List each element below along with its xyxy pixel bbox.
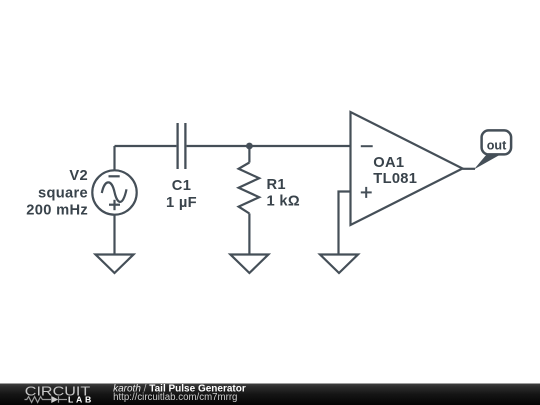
wire main net right segment — [187, 145, 351, 147]
flag out pointer — [474, 155, 500, 170]
wire V2 bottom — [113, 215, 115, 255]
svg-text:1 kΩ: 1 kΩ — [267, 194, 300, 210]
svg-text:http://circuitlab.com/cm7mrrg: http://circuitlab.com/cm7mrrg — [113, 392, 237, 403]
wire R1 bottom — [248, 214, 250, 255]
svg-text:out: out — [487, 138, 507, 152]
ground under R1 — [230, 255, 268, 274]
svg-text:LAB: LAB — [68, 395, 94, 405]
voltage source V2 — [92, 170, 136, 214]
wire op-amp output — [463, 168, 476, 170]
ground under op-amp — [320, 255, 358, 274]
node junction dot — [246, 143, 253, 150]
op-amp OA1 — [351, 112, 463, 225]
svg-text:C1: C1 — [172, 178, 191, 194]
svg-text:200 mHz: 200 mHz — [26, 203, 88, 219]
svg-text:TL081: TL081 — [373, 171, 417, 187]
svg-text:1 µF: 1 µF — [166, 195, 197, 211]
svg-text:R1: R1 — [267, 177, 286, 193]
svg-text:V2: V2 — [69, 168, 88, 184]
wire op-amp plus input — [339, 192, 351, 255]
wire main net left segment — [115, 145, 177, 147]
capacitor C1 — [178, 123, 186, 169]
svg-text:square: square — [38, 185, 88, 201]
logo resistor zigzag — [25, 396, 68, 402]
resistor R1 — [239, 163, 260, 214]
ground under V2 — [96, 255, 134, 274]
svg-text:OA1: OA1 — [373, 155, 404, 171]
flag out box — [482, 130, 512, 154]
wire V2 top — [113, 146, 115, 171]
label V2 — [26, 138, 507, 218]
wire R1 top — [248, 146, 250, 163]
logo diode triangle — [51, 396, 58, 403]
